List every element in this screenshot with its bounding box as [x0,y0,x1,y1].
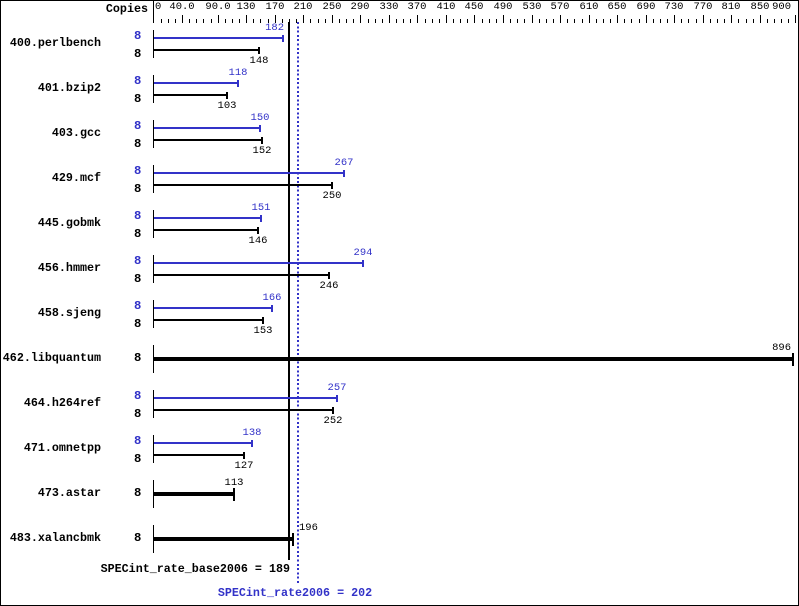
wire: row start axis segment [153,480,154,508]
combined base/peak bar 896 [154,357,794,361]
peak bar 294 [154,262,364,264]
row 400.perlbench [0,37,101,49]
base value label 252 [303,416,363,426]
base value label 103 [197,101,257,111]
peak bar 267 [154,172,345,174]
copies label (base) [134,273,141,285]
copies label [134,352,141,364]
base value label 127 [214,461,274,471]
base bar 148 [154,49,260,51]
copies label (base) [134,318,141,330]
base bar 250 [154,184,333,186]
peak value label 294 [333,248,393,258]
row 464.h264ref [0,397,101,409]
row 401.bzip2 [0,82,101,94]
ruler scale labels [155,2,161,12]
peak bar 150 [154,127,261,129]
row 471.omnetpp [0,442,101,454]
peak value label 150 [230,113,290,123]
base value label 246 [299,281,359,291]
base bar 146 [154,229,259,231]
ruler major ticks [153,15,154,23]
peak value label 166 [242,293,302,303]
value label 896 [731,343,791,353]
base value label 146 [228,236,288,246]
wire: row start axis segment [153,30,154,58]
copies label (peak) [134,75,141,87]
base value label 153 [233,326,293,336]
peak value label 151 [231,203,291,213]
peak value label 257 [307,383,367,393]
peak bar 151 [154,217,262,219]
copies label (base) [134,228,141,240]
peak bar 257 [154,397,338,399]
copies label (base) [134,408,141,420]
base bar 152 [154,139,263,141]
base value label 250 [302,191,362,201]
peak bar 118 [154,82,239,84]
value label 113 [204,478,264,488]
wire: row start axis segment [153,210,154,238]
row 456.hmmer [0,262,101,274]
copies label (base) [134,48,141,60]
peak bar 182 [154,37,284,39]
base value label 152 [232,146,292,156]
base bar 153 [154,319,264,321]
base bar 252 [154,409,334,411]
SPECint_rate_base2006 reference line (189) [288,22,290,560]
value label 196 [299,523,318,533]
base value label 148 [229,56,289,66]
peak result text [95,587,495,599]
base bar 103 [154,94,228,96]
row 473.astar [0,487,101,499]
copies label (base) [134,453,141,465]
copies label (peak) [134,30,141,42]
row 483.xalancbmk [0,532,101,544]
wire: row start axis segment [153,345,154,373]
copies label (peak) [134,390,141,402]
row 429.mcf [0,172,101,184]
peak value label 267 [314,158,374,168]
row 403.gcc [0,127,101,139]
copies label (peak) [134,120,141,132]
copies label (peak) [134,210,141,222]
wire: row start axis segment [153,525,154,553]
combined base/peak bar 196 [154,537,294,541]
base bar 127 [154,454,245,456]
wire: row start axis segment [153,120,154,148]
ruler minor ticks [161,19,162,23]
wire: row start axis segment [153,300,154,328]
SPECint_rate2006 dotted reference line (202) [297,22,299,584]
row 462.libquantum [0,352,101,364]
copies label [134,487,141,499]
peak bar 138 [154,442,253,444]
base result text [0,563,290,575]
copies label (base) [134,183,141,195]
copies label (peak) [134,435,141,447]
wire: row start axis segment [153,75,154,103]
copies label (peak) [134,255,141,267]
copies label (base) [134,138,141,150]
axis separator line [153,0,154,23]
peak value label 138 [222,428,282,438]
wire: row start axis segment [153,435,154,463]
wire: row start axis segment [153,390,154,418]
row 445.gobmk [0,217,101,229]
copies label (peak) [134,300,141,312]
copies label (peak) [134,165,141,177]
combined base/peak bar 113 [154,492,235,496]
base bar 246 [154,274,330,276]
peak bar 166 [154,307,273,309]
peak value label 118 [208,68,268,78]
header label "Copies" [0,3,148,15]
peak value label 182 [224,23,284,33]
wire: row start axis segment [153,255,154,283]
row 458.sjeng [0,307,101,319]
copies label (base) [134,93,141,105]
copies label [134,532,141,544]
wire: row start axis segment [153,165,154,193]
